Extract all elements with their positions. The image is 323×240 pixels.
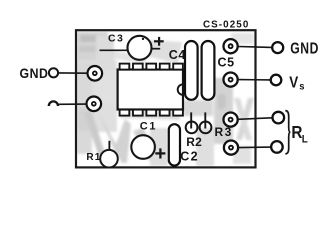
- pad: Vs: [224, 73, 238, 87]
- svg-text:R: R: [291, 122, 302, 142]
- svg-text:GND: GND: [290, 40, 319, 58]
- terminal: RL upper: [273, 112, 285, 124]
- pad: RL lower: [224, 141, 238, 155]
- svg-text:V: V: [289, 74, 298, 91]
- wire: Vs pad to terminal: [238, 79, 271, 81]
- label RL: [291, 122, 308, 145]
- wire: C3 right lead: [151, 48, 160, 50]
- svg-text:s: s: [299, 81, 305, 93]
- polarity + of C3: [154, 37, 164, 46]
- svg-text:R2: R2: [186, 135, 202, 149]
- pad: left bottom: [87, 97, 102, 112]
- svg-text:C1: C1: [140, 121, 157, 133]
- pad: right GND: [224, 39, 238, 53]
- capacitor C4: [169, 41, 198, 100]
- resistor R3: [200, 112, 233, 138]
- capacitor C3: [108, 33, 152, 60]
- wire: RL lower pad to terminal: [238, 146, 271, 149]
- svg-text:C2: C2: [180, 150, 199, 164]
- svg-text:L: L: [302, 134, 309, 146]
- svg-text:CS-0250: CS-0250: [203, 20, 249, 31]
- svg-text:GND: GND: [20, 65, 49, 81]
- resistor R1: [86, 141, 117, 168]
- polarity + of C1: [155, 148, 165, 158]
- terminal: input arc (left lower): [49, 101, 58, 106]
- wire: RL upper pad to terminal: [238, 118, 273, 120]
- wire: left GND to pad: [58, 72, 87, 74]
- svg-text:C5: C5: [218, 55, 235, 69]
- pad: RL upper: [224, 113, 238, 127]
- terminal: GND input (left): [49, 68, 58, 77]
- board outline: [76, 30, 256, 167]
- brace for RL: [285, 111, 290, 154]
- wire: left input to pad: [58, 103, 87, 105]
- terminal: GND (right): [272, 42, 283, 53]
- svg-text:C4: C4: [169, 48, 186, 62]
- svg-text:R3: R3: [215, 125, 233, 139]
- capacitor C1: [131, 121, 157, 159]
- wire: C3 lead: [100, 49, 130, 51]
- terminal: RL lower: [271, 141, 283, 153]
- resistor R2: [186, 112, 202, 149]
- IC (DIP package): [118, 64, 183, 116]
- label Vs: [289, 74, 305, 92]
- terminal: Vs: [271, 75, 282, 86]
- capacitor C5: [202, 41, 235, 100]
- pad: left top: [88, 66, 103, 81]
- svg-text:C3: C3: [108, 33, 124, 45]
- capacitor C2: [169, 124, 199, 165]
- wire: right GND pad to terminal: [238, 46, 272, 49]
